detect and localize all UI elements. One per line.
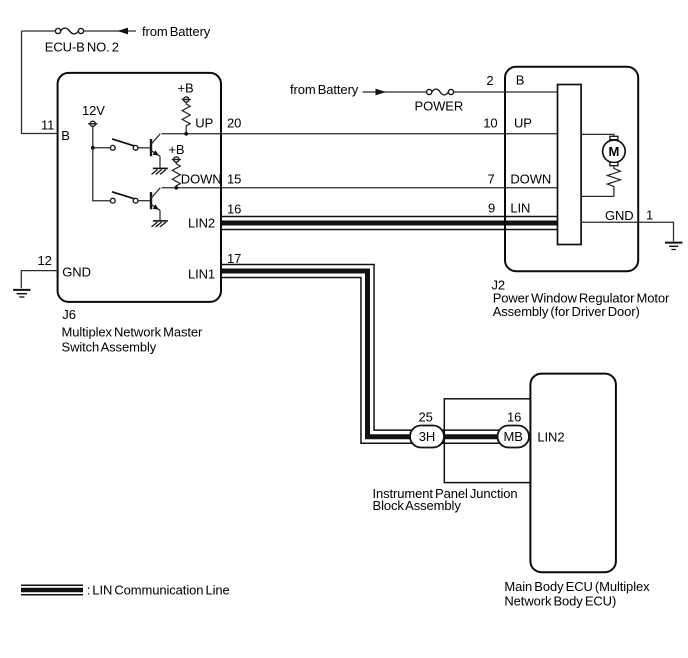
resistor R3 (motor) (581, 166, 620, 197)
svg-text:1: 1 (646, 208, 653, 223)
svg-text:17: 17 (227, 251, 241, 266)
svg-text:from Battery: from Battery (142, 24, 211, 39)
svg-text:3H: 3H (419, 429, 435, 444)
svg-text:J6: J6 (62, 307, 76, 322)
connector bar (J2 internal) (558, 85, 582, 245)
box Main Body ECU (530, 374, 616, 573)
svg-text:+B: +B (178, 81, 194, 96)
svg-text:GND: GND (605, 208, 634, 223)
wire battery down-left vertical to pin 11 (22, 31, 58, 134)
box Instrument Panel Junction Block (444, 399, 530, 483)
node dot R2/DOWN line (174, 186, 178, 190)
svg-text:POWER: POWER (415, 99, 464, 114)
motor brush top (610, 136, 618, 139)
wire UP line pin20 to pin10 (162, 133, 558, 135)
svg-text:Main Body ECU (Multiplex: Main Body ECU (Multiplex (504, 579, 650, 594)
svg-text:Switch Assembly: Switch Assembly (62, 339, 157, 354)
svg-text:16: 16 (507, 409, 521, 424)
LIN1 communication line pin17 down to junction block (triple stripe) (222, 271, 412, 437)
box J2 Power Window Regulator Motor Assembly (505, 67, 638, 271)
svg-text:B: B (516, 73, 525, 88)
pin 12 wire and GND (21, 271, 57, 289)
ground (J2 pin 1 earth) (665, 243, 682, 250)
resistor R2 (DOWN pull-up) (172, 162, 180, 188)
svg-text:16: 16 (227, 202, 241, 217)
fuse POWER (427, 89, 454, 95)
box J6 Multiplex Network Master Switch Assembly (58, 73, 221, 302)
switch S2 (down) (110, 192, 138, 203)
wire 12V rail (93, 126, 111, 200)
svg-text:DOWN: DOWN (181, 172, 222, 187)
motor brush bottom (610, 162, 618, 165)
transistor Q1 (151, 134, 160, 168)
svg-text:Assembly (for Driver Door): Assembly (for Driver Door) (493, 304, 640, 319)
wire from Battery to fuse ECU-B (top-left horizontal) (84, 30, 136, 32)
svg-text:Network Body ECU): Network Body ECU) (504, 593, 616, 608)
svg-text:from Battery: from Battery (290, 82, 359, 97)
svg-text:LIN2: LIN2 (537, 430, 564, 445)
motor M1 (603, 140, 626, 163)
svg-text:MB: MB (504, 429, 523, 444)
svg-text:LIN: LIN (510, 201, 530, 216)
svg-text:DOWN: DOWN (510, 172, 551, 187)
ground (Q2 emitter chassis) (152, 221, 168, 227)
wire switch S2 to Q2 base (138, 200, 150, 202)
svg-text:GND: GND (62, 265, 91, 280)
transistor Q2 (151, 188, 160, 220)
svg-text:M: M (609, 144, 620, 159)
node dot R1/UP line (184, 132, 188, 136)
svg-text:Multiplex Network Master: Multiplex Network Master (62, 324, 203, 339)
wire GND (J2 pin 1) (581, 222, 673, 241)
svg-text:Block Assembly: Block Assembly (373, 498, 462, 513)
wire motor top (bar to motor) (581, 134, 614, 136)
svg-text:LIN2: LIN2 (188, 216, 215, 231)
LIN2 communication line pin16 to pin9 (triple stripe) (222, 216, 558, 231)
ground (J6 pin 12 earth) (13, 290, 30, 297)
svg-text:12: 12 (38, 253, 52, 268)
arrow from Battery (right-pointing) (376, 89, 387, 96)
svg-text:ECU-B NO. 2: ECU-B NO. 2 (45, 40, 119, 55)
svg-text:+B: +B (168, 142, 184, 157)
svg-text:7: 7 (488, 172, 495, 187)
node junction dot on 12V rail (91, 146, 95, 150)
ground (Q1 emitter chassis) (152, 168, 168, 174)
wire from Battery to POWER fuse (top-right) (363, 91, 558, 93)
svg-text:20: 20 (227, 116, 241, 131)
svg-text:: LIN Communication Line: : LIN Communication Line (87, 583, 230, 598)
svg-text:25: 25 (419, 409, 433, 424)
connector MB (498, 426, 530, 448)
svg-text:11: 11 (41, 117, 54, 132)
arrow from Battery (left-pointing) (118, 28, 129, 35)
connector 3H (410, 426, 444, 448)
switch S1 (up) (110, 139, 138, 150)
LIN line between 3H and MB connectors (triple stripe) (442, 429, 499, 444)
svg-text:12V: 12V (82, 103, 105, 118)
+B terminal (DOWN resistor) (172, 157, 181, 162)
svg-text:UP: UP (195, 116, 213, 131)
svg-text:B: B (61, 128, 70, 143)
svg-text:9: 9 (488, 201, 495, 216)
wire DOWN line pin15 to pin7 (162, 187, 558, 189)
svg-text:15: 15 (227, 172, 241, 187)
svg-text:LIN1: LIN1 (188, 267, 215, 282)
legend LIN communication line sample (21, 585, 83, 596)
resistor R1 (UP pull-up) (182, 102, 190, 134)
+B terminal (UP resistor) (182, 97, 191, 102)
svg-text:UP: UP (514, 116, 532, 131)
svg-text:10: 10 (483, 116, 497, 131)
svg-text:2: 2 (486, 73, 493, 88)
fuse ECU-B NO. 2 (55, 28, 83, 34)
wire switch S1 to Q1 base (138, 147, 150, 149)
12V terminal (88, 121, 97, 126)
